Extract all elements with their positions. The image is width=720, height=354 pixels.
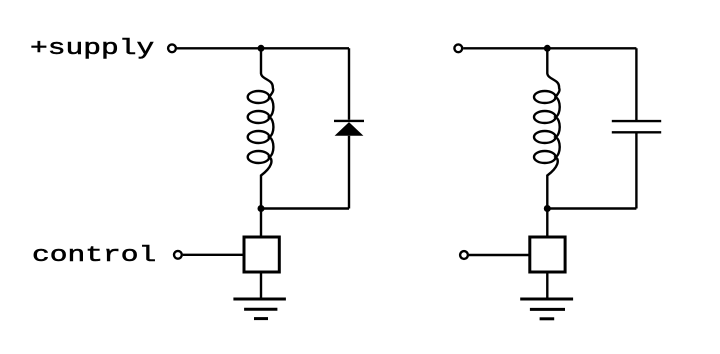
node: top junction right circuit [544, 45, 551, 52]
capacitor C1 [612, 121, 661, 132]
node: bottom junction right circuit [544, 205, 551, 212]
wire: right switch box to ground [546, 272, 548, 299]
wire: capacitor branch vertical (bottom) [635, 133, 637, 208]
wire: bottom node to switch box right [546, 209, 548, 238]
wire: diode branch vertical (top) [348, 48, 350, 119]
ground (right circuit) [520, 299, 573, 319]
wire: top node to capacitor branch corner [547, 47, 636, 49]
wire: switch box to ground [260, 272, 262, 299]
wire: control terminal to switch box [183, 254, 244, 256]
node: bottom junction left circuit [258, 205, 265, 212]
label "+supply" [30, 36, 154, 61]
terminal +supply (open circle) [168, 44, 176, 52]
ground (left circuit) [233, 299, 286, 319]
switch box U2 (control element) [530, 237, 565, 272]
wire: right supply terminal to top node [463, 47, 547, 49]
wire: top node to diode branch corner [261, 47, 349, 49]
wire: diode branch vertical (bottom) [348, 136, 350, 209]
wire: bottom node to switch box [260, 209, 262, 238]
wire: capacitor branch vertical (top) [635, 48, 637, 120]
label "control" [32, 243, 156, 268]
terminal right control (open circle) [460, 251, 468, 259]
inductor L2 [534, 48, 560, 208]
inductor L1 [248, 48, 274, 208]
wire: right control terminal to switch box [469, 254, 530, 256]
node: top junction left circuit [258, 45, 265, 52]
diode D1 (cathode bar + triangle) [334, 121, 364, 136]
wire: bottom of diode branch to bottom node [261, 207, 349, 209]
switch box U1 (control element) [244, 237, 279, 272]
wire: bottom of capacitor branch to bottom node [547, 207, 636, 209]
terminal control (open circle) [174, 251, 182, 259]
terminal right-circuit supply (open circle) [454, 44, 462, 52]
wire: +supply terminal to top node [177, 47, 261, 49]
